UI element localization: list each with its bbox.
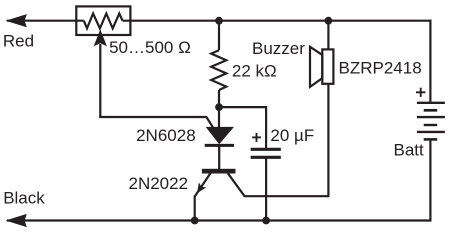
svg-text:Red: Red <box>3 32 34 51</box>
wire capacitor top lead <box>265 106 267 149</box>
battery B1 plate short 1 <box>424 109 438 112</box>
svg-text:BZRP2418: BZRP2418 <box>339 59 422 78</box>
transistor Q1 2N2022 base bar <box>202 169 236 174</box>
battery B1 plate long 2 <box>417 116 445 118</box>
node dot top at 22k <box>215 17 223 25</box>
node dot capacitor at bottom bus <box>262 217 270 225</box>
transistor Q1 emitter line <box>195 173 211 196</box>
resistor R2 22k bottom lead <box>218 90 220 107</box>
resistor R2 22k zigzag <box>211 50 226 90</box>
wire top red lead (arrow tip to potentiometer) <box>7 20 84 22</box>
svg-text:Buzzer: Buzzer <box>252 39 305 58</box>
potentiometer R1 zigzag <box>84 14 123 29</box>
wire capacitor bottom lead <box>265 157 267 220</box>
wire bottom bus (black lead) <box>7 219 432 221</box>
wire PUT cathode to transistor base <box>218 145 220 169</box>
battery B1 plate long 1 <box>417 102 445 104</box>
wire buzzer top lead <box>327 21 329 50</box>
svg-text:Batt: Batt <box>394 140 425 159</box>
resistor R2 22k top lead <box>218 21 220 51</box>
wire right edge (top corner down to battery +) <box>429 20 431 102</box>
transistor Q1 collector line <box>228 84 329 196</box>
battery B1 plate long 3 <box>417 131 445 133</box>
wire wiper vertical <box>99 44 101 117</box>
svg-text:Black: Black <box>3 189 45 208</box>
svg-text:20 µF: 20 µF <box>270 126 314 145</box>
arrowhead left red <box>6 14 27 27</box>
buzzer LS1 driver rectangle <box>322 49 333 83</box>
node dot top at buzzer <box>325 17 333 25</box>
PUT 2N6028 cathode bar <box>205 144 234 147</box>
PUT 2N6028 triangle <box>206 127 234 144</box>
svg-text:22 kΩ: 22 kΩ <box>232 62 277 81</box>
wire emitter down to bottom bus <box>194 196 196 221</box>
svg-text:2N6028: 2N6028 <box>136 126 196 145</box>
capacitor plus sign <box>252 133 261 142</box>
battery B1 plate short 2 <box>424 124 438 126</box>
potentiometer wiper arrow <box>94 29 107 46</box>
capacitor C1 top plate <box>251 148 281 151</box>
buzzer LS1 cone <box>310 47 322 87</box>
node dot 22k / PUT / capacitor <box>215 103 223 111</box>
svg-text:50…500 Ω: 50…500 Ω <box>109 38 191 57</box>
potentiometer R1 box <box>76 6 130 35</box>
wire top bus (potentiometer to top-right corner) <box>123 20 432 22</box>
battery B1 plate short 3 <box>424 138 438 141</box>
transistor Q1 emitter arrowhead <box>197 182 206 193</box>
battery plus sign <box>416 88 425 97</box>
wire battery negative lead down to bottom corner <box>429 140 431 220</box>
arrowhead left black <box>6 214 27 227</box>
wire gate horizontal to PUT <box>99 117 213 127</box>
svg-text:2N2022: 2N2022 <box>129 174 189 193</box>
wire capacitor branch horizontal <box>219 106 266 108</box>
capacitor C1 bottom plate <box>251 156 281 159</box>
wire PUT anode lead <box>218 107 220 127</box>
node dot emitter at bottom bus <box>191 217 199 225</box>
